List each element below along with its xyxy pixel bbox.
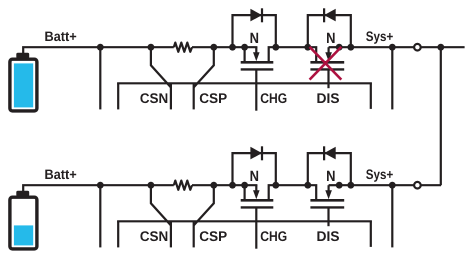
wire: CHG gate pin — [255, 69, 257, 110]
transistor Q2a body arrow (points down to channel) — [253, 185, 260, 199]
diode D2b body-diode loop of DIS FET — [308, 153, 351, 185]
wire: CSN pin vertical — [170, 221, 172, 247]
diode D1b body-diode loop of DIS FET — [308, 15, 351, 47]
node: CSN junction — [148, 44, 155, 51]
diode D2a cathode bar — [261, 146, 263, 160]
transistor Q1b gate bar — [310, 68, 344, 70]
wire: CHG drain elbow to DIS drain elbow — [269, 47, 317, 61]
node: Vdd sense junction — [389, 182, 396, 189]
transistor Q1a CHG N-FET: source stub — [244, 47, 246, 61]
node: DIS diode cathode junction — [347, 44, 354, 51]
diode D2b triangle (anode right, points left) — [324, 147, 336, 160]
node: Vdd sense junction — [389, 44, 396, 51]
resistor R1 (current sense) — [174, 43, 192, 52]
transistor Q1a gate bar — [241, 68, 274, 70]
pin label CSN — [140, 93, 167, 103]
label N (CHG FET channel type) — [251, 33, 259, 43]
net label Batt+ — [45, 32, 76, 41]
node: DIS drain/diode junction — [304, 182, 311, 189]
transistor Q1a body arrow (points down to channel) — [253, 47, 260, 61]
protector IC U1 top edge — [117, 82, 372, 84]
diode D1b triangle (anode right, points left) — [324, 9, 336, 22]
diode D1a triangle (anode left, points right) — [250, 9, 262, 22]
wire: CSN pin diagonal — [151, 47, 171, 87]
wire: pack+ sense pin drop — [99, 185, 101, 247]
transistor Q2b channel bar — [310, 199, 344, 202]
wire: resistor to CHG FET source — [192, 184, 257, 186]
transistor Q2a gate bar — [241, 206, 274, 208]
label N (DIS FET channel type) — [327, 171, 335, 181]
connector terminal (open circle) — [414, 44, 421, 51]
resistor R2 (current sense) — [174, 181, 192, 190]
wire: CSP pin diagonal — [194, 185, 214, 225]
pin label CHG — [261, 93, 287, 103]
battery B1 — [10, 53, 37, 111]
transistor Q2a channel bar — [241, 199, 274, 202]
node: DIS source junction — [336, 44, 343, 51]
wire: CSP pin diagonal — [194, 47, 214, 87]
node: CHG source junction — [241, 44, 248, 51]
diode D2a triangle (anode left, points right) — [250, 147, 262, 160]
node: CSN junction — [148, 182, 155, 189]
wire: battery positive lead — [23, 185, 174, 193]
wire: CHG gate pin — [255, 207, 257, 248]
node: Sys+ bus junction row1 — [437, 44, 444, 51]
wire: DIS gate pin (short stub) — [327, 207, 329, 226]
node: CSP junction — [210, 182, 217, 189]
red X: DIS FET disabled — [310, 47, 342, 80]
wire: DIS source to Sys+ rail — [339, 184, 441, 186]
wire: DIS gate pin (short stub) — [327, 69, 329, 88]
wire: CSP pin vertical — [193, 221, 195, 247]
label N (CHG FET channel type) — [251, 171, 259, 181]
diode D1b cathode bar — [323, 8, 325, 22]
transistor Q1b DIS N-FET: body arrow wire from source — [329, 46, 340, 48]
net label Batt+ — [45, 170, 76, 180]
bus wire: Sys+ rail row1 to row2 — [440, 47, 442, 185]
node: pack+ junction — [97, 182, 104, 189]
wire: Vdd sense pin drop — [391, 47, 393, 109]
protector IC U2 top edge — [117, 220, 372, 222]
transistor Q1b channel bar — [310, 61, 344, 64]
pin label CHG — [261, 231, 287, 241]
node: CHG diode anode junction — [229, 182, 236, 189]
wire: battery positive lead — [23, 47, 174, 55]
wire: CSP pin vertical — [193, 83, 195, 109]
node: DIS drain/diode junction — [304, 44, 311, 51]
net label Sys+ — [366, 169, 393, 181]
transistor Q2b gate bar — [310, 206, 344, 208]
node: CHG diode anode junction — [229, 44, 236, 51]
node: CHG source junction — [241, 182, 248, 189]
protector IC U2 right edge — [370, 221, 372, 247]
wire: CSN pin diagonal — [151, 185, 171, 225]
transistor Q1b body arrow (points down to channel) — [325, 47, 332, 61]
node: DIS diode cathode junction — [347, 182, 354, 189]
wire: CHG drain elbow to DIS drain elbow — [269, 185, 317, 199]
wire: Vdd sense pin drop — [391, 185, 393, 247]
protector IC U2 left edge — [117, 221, 119, 247]
label N (DIS FET channel type) — [327, 33, 335, 43]
wire: CSN pin vertical — [170, 83, 172, 109]
pin label CSN — [140, 231, 167, 241]
connector terminal (open circle) — [414, 182, 421, 189]
pin label DIS — [317, 93, 339, 103]
node: CHG drain junction — [272, 44, 279, 51]
transistor Q2b body arrow (points down to channel) — [325, 185, 332, 199]
node: CHG drain junction — [272, 182, 279, 189]
node: DIS source junction — [336, 182, 343, 189]
pin label CSP — [200, 93, 227, 103]
pin label DIS — [317, 231, 339, 241]
battery B2 — [10, 191, 37, 249]
net label Sys+ — [366, 31, 393, 43]
diode D2a body-diode loop of CHG FET — [233, 153, 276, 185]
protector IC U1 left edge — [117, 83, 119, 109]
node: CSP junction — [210, 44, 217, 51]
transistor Q2a CHG N-FET: source stub — [244, 185, 246, 199]
wire: DIS source to Sys+ rail — [339, 46, 464, 48]
diode D1a body-diode loop of CHG FET — [233, 15, 276, 47]
pin label CSP — [200, 231, 227, 241]
diode D1a cathode bar — [261, 8, 263, 22]
wire: pack+ sense pin drop — [99, 47, 101, 109]
transistor Q1a channel bar — [241, 61, 274, 64]
wire: resistor to CHG FET source — [192, 46, 257, 48]
diode D2b cathode bar — [323, 146, 325, 160]
protector IC U1 right edge — [370, 83, 372, 109]
node: pack+ junction — [97, 44, 104, 51]
transistor Q2b DIS N-FET: body arrow wire from source — [329, 184, 340, 186]
